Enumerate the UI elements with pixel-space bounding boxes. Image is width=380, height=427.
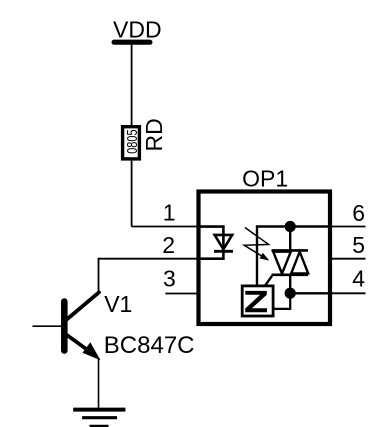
wire pin 1 xyxy=(132,226,199,228)
svg-text:4: 4 xyxy=(352,266,365,292)
transistor V1 collector xyxy=(66,292,100,320)
svg-text:RD: RD xyxy=(141,118,167,151)
wire pin 3 stub xyxy=(165,293,199,295)
zero-crossing block Z xyxy=(242,286,273,316)
LED D1 symbol xyxy=(214,235,233,251)
svg-text:6: 6 xyxy=(352,200,365,226)
letter Z xyxy=(245,291,267,312)
wire pin 4 stub xyxy=(330,292,366,294)
svg-text:0805: 0805 xyxy=(123,129,140,153)
wire VDD to RD xyxy=(131,44,133,126)
optocoupler OP1 body xyxy=(199,192,331,325)
wire pin 6 stub xyxy=(330,226,366,228)
triac gate to Z xyxy=(265,276,272,286)
light arrow xyxy=(244,228,269,261)
wire emitter to ground xyxy=(98,359,100,409)
svg-text:5: 5 xyxy=(352,232,365,258)
svg-text:BC847C: BC847C xyxy=(104,332,195,359)
svg-text:V1: V1 xyxy=(104,291,132,317)
wire pin 2 to collector xyxy=(99,259,200,293)
triac right triangle xyxy=(291,252,308,274)
wire node to Z box xyxy=(275,293,291,309)
power VDD xyxy=(112,16,162,44)
wire pin 5 stub xyxy=(330,258,366,260)
svg-text:3: 3 xyxy=(163,266,176,292)
svg-text:2: 2 xyxy=(162,232,175,258)
LED D1 anode/cathode loop xyxy=(199,227,223,259)
ground xyxy=(73,410,125,427)
resistor RD xyxy=(123,118,167,159)
triac top bar xyxy=(272,249,309,252)
wire dot to triac xyxy=(289,227,291,251)
wire pin4 internal xyxy=(290,292,330,294)
wire triac to bottom node xyxy=(289,275,291,293)
junction node top xyxy=(285,221,296,232)
triac bottom bar xyxy=(272,273,309,276)
wire pin6 internal xyxy=(257,227,330,287)
wire RD to pin 1 xyxy=(131,160,133,227)
svg-text:VDD: VDD xyxy=(113,16,162,42)
svg-text:1: 1 xyxy=(163,200,176,226)
transistor V1 emitter xyxy=(66,334,101,360)
transistor V1 base wire xyxy=(33,325,65,327)
transistor V1 base bar xyxy=(61,302,68,351)
triac left triangle xyxy=(273,252,291,274)
svg-text:OP1: OP1 xyxy=(242,165,288,191)
junction node bottom xyxy=(285,288,296,299)
